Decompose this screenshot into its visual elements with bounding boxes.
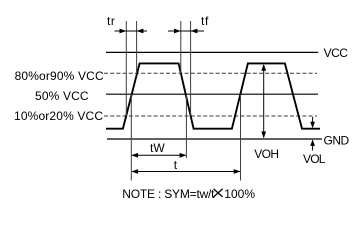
tf right boundary line (20% falling crossing) [190,21,192,116]
waveform [106,63,320,128]
VCC reference line [106,51,318,53]
svg-text:VOL: VOL [303,152,326,166]
svg-text:80%or90% VCC: 80%or90% VCC [15,69,104,83]
svg-text:50% VCC: 50% VCC [35,89,89,103]
tW right boundary line (50% falling crossing) [185,95,187,159]
VOL lower arrow (points up to GND) [310,140,315,151]
tr arrow left [115,29,148,34]
svg-text:100%: 100% [224,187,255,201]
10%or20% VCC dashed reference line [104,115,317,117]
GND reference line [107,138,322,140]
tr right boundary line (80% rising crossing) [136,21,138,74]
note multiplication sign [214,189,223,197]
svg-text:tW: tW [150,141,165,155]
svg-text:VCC: VCC [324,46,349,60]
80%or90% VCC dashed reference line [104,72,317,74]
t double arrow [131,169,240,174]
VOH vertical double arrow [261,64,266,138]
tW double arrow [131,153,186,158]
svg-text:tf: tf [201,14,209,28]
tf left boundary line (80% falling crossing) [180,21,182,74]
svg-text:10%or20% VCC: 10%or20% VCC [14,109,103,123]
tW/t left boundary line (50% rising crossing) [130,94,132,181]
tr arrow right [137,29,144,34]
svg-text:NOTE : SYM=tw/t: NOTE : SYM=tw/t [122,187,215,201]
t right boundary line (50% rising crossing of 2nd pulse) [240,95,242,181]
svg-text:VOH: VOH [254,147,278,161]
tf arrow left [168,29,204,34]
50% VCC reference line [106,93,318,95]
svg-text:tr: tr [107,14,115,28]
VOL upper arrow (points down to low level) [310,117,315,128]
tf arrow right [191,29,198,34]
tr left boundary line (20% rising crossing) [125,21,127,116]
svg-text:GND: GND [324,133,350,147]
